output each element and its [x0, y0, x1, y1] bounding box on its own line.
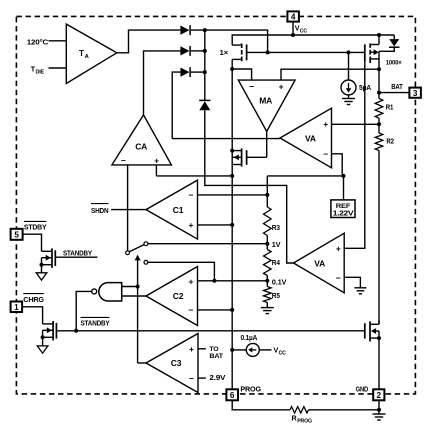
node 0.1uA tap junction	[230, 348, 234, 352]
node 1V tap	[265, 242, 269, 246]
amplifier TA	[66, 24, 117, 83]
svg-text:PROG: PROG	[297, 418, 312, 424]
wire CA minus down to switch	[127, 165, 129, 251]
svg-text:−: −	[336, 273, 341, 283]
wire diode1 cathode to gate-bus drop	[191, 30, 268, 52]
svg-text:2: 2	[377, 391, 382, 400]
svg-text:STDBY: STDBY	[24, 224, 47, 231]
svg-text:1.22V: 1.22V	[333, 211, 354, 218]
resistor RPROG	[290, 407, 309, 413]
svg-text:−: −	[189, 190, 194, 200]
svg-text:0.1µA: 0.1µA	[241, 335, 258, 342]
power Vcc pin stub	[292, 22, 294, 35]
wire NAND input from C3	[122, 286, 138, 288]
node rail/REF/VA1 junction	[342, 174, 346, 178]
wire diode stack vertical	[204, 30, 206, 100]
switch throw 1V	[144, 242, 148, 246]
wire RPROG to GND node	[309, 409, 380, 411]
svg-text:TO: TO	[209, 346, 218, 353]
ground (5uA source)	[348, 95, 350, 99]
wire CA plus stub	[155, 165, 157, 176]
wire C3 plus stub	[198, 348, 206, 350]
svg-text:REF: REF	[336, 203, 351, 210]
svg-text:+: +	[189, 220, 194, 230]
node Vcc pin junction	[291, 33, 295, 37]
wire diode2 cathode	[191, 50, 205, 52]
wire 1x drain node to MA minus	[232, 69, 251, 80]
svg-text:3: 3	[413, 89, 418, 98]
amplifier MA	[238, 80, 295, 131]
svg-text:VA: VA	[305, 133, 316, 143]
node GND external junction	[377, 408, 381, 412]
resistor R5	[266, 281, 268, 287]
svg-text:C2: C2	[173, 291, 184, 301]
node NAND output junction	[74, 329, 78, 333]
current source 0.1uA	[246, 343, 259, 356]
svg-text:C3: C3	[171, 358, 182, 368]
wire Vcc rail	[232, 35, 394, 45]
amplifier CA	[112, 115, 171, 165]
resistor R2	[375, 133, 383, 151]
node 0.1V tap	[265, 279, 269, 283]
wire C2 output to NAND	[122, 295, 147, 297]
switch control arrow	[137, 259, 139, 363]
ground (STDBY FET)	[41, 265, 43, 273]
switch throw to C2	[144, 260, 148, 264]
svg-text:120°C: 120°C	[27, 38, 48, 47]
svg-text:1V: 1V	[272, 242, 281, 249]
gate NAND (mirrored)	[99, 283, 122, 301]
switch blade	[129, 245, 144, 252]
svg-text:0.1V: 0.1V	[272, 280, 287, 287]
transistor discharge NMOS	[370, 323, 379, 325]
node diode1-stack junction	[203, 28, 207, 32]
pin 1 CHRG	[11, 302, 23, 313]
svg-text:SHDN: SHDN	[91, 208, 109, 215]
wire VA2 plus to 1000x gate	[344, 61, 365, 248]
switch pole	[126, 251, 130, 255]
pin 2 GND	[373, 389, 384, 400]
svg-text:C1: C1	[173, 205, 184, 215]
wire rail to resistor string	[266, 176, 268, 195]
svg-text:2.9V: 2.9V	[209, 375, 225, 382]
wire clamp gate to net	[247, 156, 267, 158]
svg-text:+: +	[279, 81, 284, 91]
svg-text:1: 1	[14, 303, 19, 312]
wire 0.1uA to sense line	[232, 349, 246, 351]
node C2 minus junction	[230, 308, 234, 312]
diode (CA output)	[180, 46, 189, 55]
pin 5 STDBY	[11, 229, 23, 240]
node diode3-stack junction	[203, 70, 207, 74]
comparator C2	[146, 267, 198, 326]
resistor R3	[266, 195, 268, 207]
transistor 1000x PMOS pass	[378, 35, 380, 45]
label STANDBY-bar	[81, 316, 110, 318]
amplifier VA2	[294, 233, 345, 293]
resistor R1	[375, 99, 383, 119]
node 1000x source at Vcc rail	[377, 33, 381, 37]
node BAT top junction	[377, 67, 381, 71]
node string top / C1 minus junction	[265, 193, 269, 197]
svg-text:1000×: 1000×	[386, 60, 402, 67]
amplifier VA1	[280, 108, 332, 168]
svg-text:−: −	[323, 149, 328, 159]
wire R2 to discharge FET	[378, 151, 380, 325]
transistor STDBY pulldown NMOS	[42, 250, 53, 252]
node 5uA tap on gate bus	[347, 50, 351, 54]
comparator C3	[146, 334, 198, 393]
ground (external)	[378, 410, 380, 414]
svg-text:CA: CA	[135, 142, 147, 152]
resistor R4	[266, 244, 268, 250]
svg-text:R1: R1	[386, 104, 394, 111]
wire pin5 to FET drain	[23, 234, 42, 251]
svg-text:+: +	[154, 155, 159, 165]
svg-text:GND: GND	[356, 386, 369, 393]
wire PROG to RPROG	[232, 400, 290, 410]
svg-text:STANDBY: STANDBY	[63, 250, 92, 257]
svg-text:BAT: BAT	[391, 84, 403, 91]
wire TA input 120°C	[49, 40, 67, 42]
svg-text:+: +	[336, 244, 341, 254]
svg-text:CHRG: CHRG	[23, 297, 44, 304]
wire discharge FET source to pin2	[378, 338, 380, 389]
svg-text:CC: CC	[300, 28, 308, 34]
comparator C1	[146, 180, 198, 239]
wire reference rail right	[267, 175, 343, 177]
wire switch to 1V tap	[148, 243, 267, 245]
voltage reference REF 1.22V	[343, 176, 345, 200]
svg-text:R2: R2	[386, 139, 394, 146]
pin 4 VCC	[287, 11, 299, 21]
wire CA output riser to diode2	[144, 51, 181, 115]
wire SHDN to C1	[111, 209, 146, 211]
IC boundary (dashed)	[16, 16, 415, 394]
svg-text:MA: MA	[259, 96, 272, 106]
wire net riser to diode3	[172, 72, 180, 139]
pin 6 PROG	[226, 389, 238, 400]
transistor CHRG pulldown NMOS	[43, 323, 54, 325]
wire reference rail left	[156, 175, 232, 177]
svg-text:−: −	[189, 305, 194, 315]
svg-text:5: 5	[14, 230, 19, 239]
wire VA1 plus to R1/R2 node	[332, 123, 380, 125]
wire VA1 minus to reference rail	[332, 154, 343, 176]
svg-text:BAT: BAT	[209, 353, 224, 360]
svg-text:PROG: PROG	[240, 386, 261, 393]
wire NAND output to STANDBY line	[76, 291, 92, 330]
svg-text:R5: R5	[272, 293, 280, 300]
node C1 plus junction	[230, 223, 234, 227]
node 1x drain junction	[230, 67, 234, 71]
wire STANDBY-bar line	[56, 330, 364, 332]
wire MA output to net	[266, 131, 268, 157]
svg-text:6: 6	[230, 391, 235, 400]
svg-text:−: −	[121, 155, 126, 165]
svg-text:−: −	[249, 81, 254, 91]
wire PROG sense vertical	[231, 59, 233, 389]
diode (TA output)	[180, 26, 189, 35]
wire gate bus	[247, 51, 365, 53]
current source 5uA	[348, 52, 350, 80]
svg-text:−: −	[189, 373, 194, 383]
node C2 plus / switch junction	[212, 279, 216, 283]
wire TA input TDIE	[49, 67, 67, 69]
wire C3 output riser	[138, 362, 146, 364]
svg-text:+: +	[189, 277, 194, 287]
transistor 1x PMOS mirror	[232, 44, 242, 46]
diode (VA2 isolation, pointing up)	[199, 99, 210, 101]
wire TA output to diode line	[117, 30, 181, 53]
diode (1000x body)	[393, 35, 395, 39]
wire pin2 to external node	[378, 400, 380, 410]
wire switch throw to C2 plus	[148, 262, 215, 281]
svg-text:VA: VA	[314, 258, 325, 268]
wire MA plus to BAT node	[281, 69, 379, 80]
svg-text:CC: CC	[279, 351, 287, 357]
svg-text:R3: R3	[272, 225, 280, 232]
node NAND input junction	[136, 285, 140, 289]
node MA-output/gate-bus junction	[266, 50, 270, 54]
svg-text:+: +	[189, 344, 194, 354]
svg-text:R4: R4	[272, 260, 280, 267]
wire STANDBY gate stub	[55, 256, 97, 258]
svg-text:+: +	[323, 119, 328, 129]
pin 3 BAT	[409, 88, 421, 98]
wire C2 minus to sense line	[198, 309, 233, 311]
svg-text:T: T	[79, 49, 84, 58]
ground (resistor string)	[266, 303, 268, 308]
wire C1 plus to sense line	[198, 224, 233, 226]
transistor clamp NMOS	[232, 150, 241, 152]
wire C3 minus stub	[198, 377, 206, 379]
node diode2-stack junction	[203, 49, 207, 53]
wire VA2 output to diode stack	[205, 110, 294, 263]
diode (gate drive net)	[180, 68, 189, 77]
wire diode3 cathode	[191, 71, 205, 73]
wire C2 plus to 0.1V tap	[198, 280, 268, 282]
svg-text:DIE: DIE	[36, 70, 45, 76]
svg-text:STANDBY: STANDBY	[81, 320, 110, 327]
label SHDN	[91, 203, 108, 205]
wire C1 minus to string top	[198, 194, 268, 196]
label STDBY	[24, 220, 47, 222]
wire pin1 to FET drain	[22, 307, 42, 324]
node R1/R2 divider tap	[377, 122, 381, 126]
node rail/sense junction	[230, 174, 234, 178]
svg-text:4: 4	[291, 13, 296, 22]
wire MA/VA output net	[172, 138, 280, 140]
svg-text:1×: 1×	[220, 48, 229, 57]
wire BAT node to pin	[378, 69, 380, 98]
label CHRG	[23, 293, 44, 295]
ground (CHRG FET)	[42, 337, 44, 346]
wire VA2 minus to ground	[344, 277, 360, 288]
ground (VA2 minus)	[354, 287, 366, 289]
